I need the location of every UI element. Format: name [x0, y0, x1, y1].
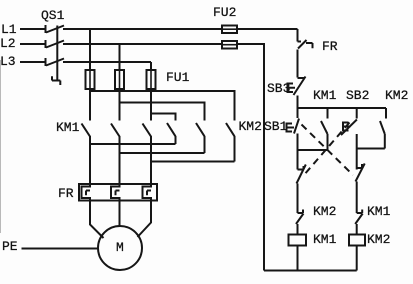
wire L3 input — [20, 61, 46, 63]
svg-text:KM1: KM1 — [56, 120, 80, 135]
wire control feed down — [297, 29, 299, 42]
svg-text:KM1: KM1 — [313, 88, 337, 103]
wire phase B drop — [119, 44, 121, 70]
contactor KM2 main contact 1 — [167, 123, 176, 136]
contactor KM1 main contact 3 — [143, 124, 152, 137]
wire KM1 out C down — [150, 136, 152, 184]
wire KM1 out A down — [89, 136, 91, 184]
fuse FU2 on L2 — [222, 41, 237, 49]
svg-text:PE: PE — [2, 239, 18, 254]
fuse FU1 phase C — [147, 70, 156, 89]
svg-text:QS1: QS1 — [41, 8, 65, 23]
svg-text:KM2: KM2 — [239, 119, 262, 134]
wire coil KM1 down — [297, 246, 299, 271]
wire phase C to KM1 contact — [150, 89, 152, 121]
wire L1 to control — [237, 28, 298, 30]
wire phase C drop — [150, 62, 152, 70]
svg-text:L1: L1 — [1, 22, 17, 37]
coil KM1 — [289, 235, 307, 246]
svg-text:KM2: KM2 — [313, 204, 336, 219]
node L3 contact tick — [45, 58, 47, 66]
wire branch B to KM2 — [120, 103, 205, 121]
relay FR element A — [82, 184, 91, 201]
button SB2 actuator E — [343, 123, 351, 131]
button SB2 NO start — [341, 108, 357, 150]
contactor KM2 main contact 2 — [196, 123, 205, 136]
svg-text:FU1: FU1 — [166, 70, 190, 85]
wire KM1 out B down — [119, 136, 121, 184]
wire KM2 out 3 crossover — [151, 136, 235, 162]
coil KM2 — [349, 235, 365, 246]
contactor KM1 aux NO — [321, 108, 328, 150]
wire phase B to KM1 contact — [119, 89, 121, 121]
svg-text:KM2: KM2 — [367, 232, 390, 247]
wire motor lead W — [138, 201, 152, 238]
wire motor lead U — [90, 201, 104, 239]
button SB3 actuator E — [288, 84, 296, 93]
wire L3 bus — [63, 61, 151, 63]
wire SB1-KM1 junction — [298, 149, 328, 151]
svg-text:SB1: SB1 — [264, 119, 288, 134]
svg-text:FR: FR — [58, 186, 74, 201]
button SB1 NC linked contact — [356, 164, 365, 214]
wire FR to SB3 — [297, 50, 299, 78]
button SB1 NO start — [294, 108, 299, 150]
svg-text:SB2: SB2 — [346, 88, 369, 103]
motor M circle — [98, 226, 142, 270]
wire left column down — [297, 150, 299, 170]
button SB2 NC linked contact — [297, 165, 306, 214]
svg-text:L3: L3 — [0, 54, 16, 69]
wire PE to motor — [22, 248, 99, 250]
relay contact FR NC — [298, 40, 313, 49]
link dashed SB1 to right NC — [302, 125, 354, 176]
contactor KM2 main contact 3 — [226, 123, 235, 136]
wire phase A drop — [89, 29, 91, 70]
switch QS1 blade L3 — [46, 59, 64, 66]
wire KM2 out 1 crossover — [90, 136, 176, 144]
wire L2 input — [20, 43, 46, 45]
link dashed SB2 to left NC — [304, 123, 350, 176]
wire SB2-KM2 junction — [357, 148, 385, 150]
svg-text:FR: FR — [322, 39, 338, 54]
node L2 contact tick — [45, 40, 47, 48]
svg-text:KM1: KM1 — [313, 232, 337, 247]
switch QS1 blade L1 — [46, 26, 64, 33]
contactor KM2 aux NO — [380, 108, 386, 149]
fuse FU1 phase B — [115, 70, 124, 89]
wire motor lead V — [119, 201, 121, 227]
svg-text:FU2: FU2 — [213, 5, 236, 20]
wire right column down — [356, 150, 358, 170]
node L1 contact tick — [45, 25, 47, 33]
svg-text:L2: L2 — [0, 36, 16, 51]
wire KM2 out 2 crossover — [120, 136, 205, 153]
wire phase A to KM1 contact — [89, 89, 91, 121]
wire control bottom return — [264, 270, 357, 272]
wire L2 to control drop — [237, 44, 264, 271]
svg-text:M: M — [116, 240, 124, 255]
wire branch C to KM2 — [151, 114, 176, 121]
relay FR element C — [143, 184, 152, 201]
wire L2 bus — [63, 43, 222, 45]
relay FR element B — [111, 184, 120, 201]
contactor KM1 main contact 2 — [111, 124, 120, 137]
contactor KM1 main contact 1 — [82, 124, 91, 137]
contactor KM1 NC interlock — [355, 210, 363, 235]
relay FR heater box — [79, 184, 157, 201]
wire L1 bus — [63, 28, 222, 30]
button SB1 actuator E — [287, 124, 295, 132]
wire coil KM2 down — [356, 246, 358, 271]
contactor KM2 NC interlock — [296, 210, 304, 235]
fuse FU1 phase A — [86, 70, 95, 89]
button SB3 NC stop — [294, 77, 306, 109]
fuse FU2 on L1 — [222, 26, 237, 34]
svg-text:KM1: KM1 — [367, 204, 391, 219]
wire control node line — [298, 107, 387, 109]
svg-text:KM2: KM2 — [385, 88, 408, 103]
switch QS1 blade L2 — [46, 41, 64, 48]
wire L1 input — [20, 28, 46, 30]
switch QS1 link bar — [52, 26, 60, 86]
wire branch A to KM2 — [90, 91, 235, 121]
